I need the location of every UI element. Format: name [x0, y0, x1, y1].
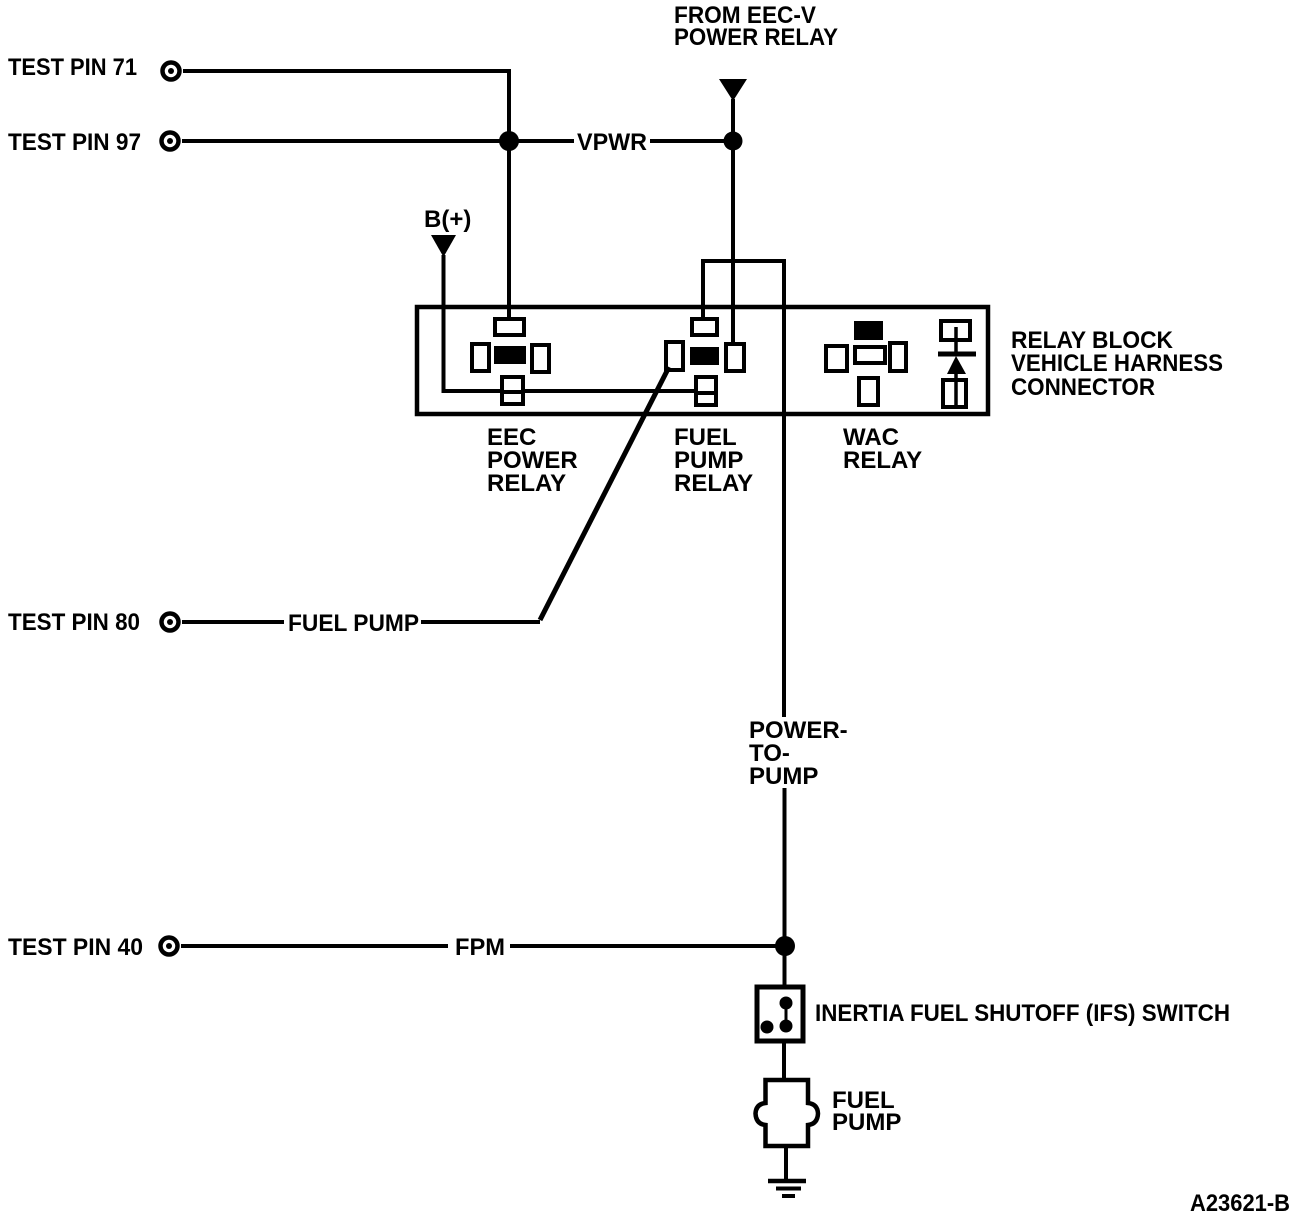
junction VPWR-EEC-V feed [724, 132, 743, 151]
fuel pump relay top pin [692, 319, 717, 335]
wire power-to-pump to FPM junction and IFS switch [785, 788, 786, 1004]
svg-text:FUEL PUMP: FUEL PUMP [288, 610, 419, 637]
wire IFS switch to fuel pump [782, 1041, 786, 1079]
svg-text:TEST PIN 80: TEST PIN 80 [8, 609, 140, 636]
WAC relay right contact [890, 343, 906, 371]
node FROM EEC-V POWER RELAY label [674, 2, 838, 51]
relay block vehicle harness connector outline [417, 307, 988, 414]
EEC power relay top pin [495, 319, 524, 335]
fuel pump motor M1 [756, 1080, 819, 1146]
fuel pump relay bottom pin upper [696, 377, 716, 393]
wire TP97 to VPWR node [182, 139, 733, 143]
fuel pump relay right contact [726, 344, 744, 371]
wire TP40 to FPM label [181, 944, 448, 948]
WAC relay coil [854, 321, 883, 340]
power feed arrow from EEC-V power relay [719, 79, 747, 101]
diode D1 [938, 354, 976, 374]
svg-text:INERTIA FUEL SHUTOFF (IFS) SWI: INERTIA FUEL SHUTOFF (IFS) SWITCH [815, 1000, 1230, 1027]
wire fuel pump relay output bridge to power-to-pump line [701, 259, 786, 717]
wire TP71 to VPWR junction [183, 71, 509, 141]
svg-text:VPWR: VPWR [577, 129, 647, 156]
svg-text:PUMP: PUMP [749, 763, 818, 790]
node TEST PIN 97 label [8, 129, 141, 156]
wire diode top stub [954, 327, 958, 354]
WAC RELAY label [843, 424, 922, 474]
svg-text:PUMP: PUMP [832, 1109, 901, 1136]
node POWER-TO-PUMP label [749, 717, 848, 790]
fuel pump relay left contact [666, 342, 683, 370]
FUEL PUMP component label [832, 1087, 901, 1136]
svg-text:B(+): B(+) [424, 206, 471, 233]
diode top pin [941, 321, 970, 340]
svg-text:A23621-B: A23621-B [1190, 1190, 1290, 1217]
EEC power relay left contact [472, 344, 489, 371]
wire B+ bus to relay bottom pins [442, 389, 707, 393]
svg-text:FPM: FPM [455, 934, 505, 961]
power feed arrow B(+) [431, 235, 456, 257]
node VPWR label [577, 129, 647, 156]
wire EEC-V feed down to fuel pump relay pin [731, 99, 735, 345]
node TEST PIN 80 label [8, 609, 140, 636]
wire diode bottom stub [954, 374, 958, 382]
junction FPM power-to-pump [775, 936, 795, 956]
wire VPWR down to EEC relay top pin [507, 141, 511, 321]
svg-text:TEST PIN 40: TEST PIN 40 [8, 934, 143, 961]
fuel pump relay bottom pin lower [696, 393, 716, 405]
diode bottom pin [943, 380, 966, 407]
svg-text:RELAY: RELAY [487, 470, 566, 497]
wire TP80 to FUEL PUMP label [182, 620, 284, 624]
svg-text:RELAY: RELAY [843, 447, 922, 474]
svg-text:POWER RELAY: POWER RELAY [674, 24, 838, 51]
test point terminal TP71 [163, 63, 180, 80]
node FPM label [455, 934, 505, 961]
svg-text:TEST PIN 71: TEST PIN 71 [8, 54, 137, 81]
EEC POWER RELAY label [487, 424, 578, 497]
wire FUEL PUMP to diagonal [421, 620, 540, 624]
EEC power relay bottom pin upper [502, 377, 523, 392]
wire diagonal to fuel pump relay contact [540, 367, 669, 620]
WAC relay middle contact [855, 347, 885, 363]
drawing number A23621-B [1190, 1190, 1290, 1217]
EEC power relay right contact [532, 345, 549, 372]
wire FPM to junction [510, 944, 784, 948]
node B(+) label [424, 206, 471, 233]
ground [768, 1181, 806, 1196]
svg-text:RELAY: RELAY [674, 470, 753, 497]
wire fuel pump to ground [784, 1148, 788, 1181]
fuel pump relay coil [690, 347, 719, 365]
svg-text:CONNECTOR: CONNECTOR [1011, 374, 1155, 401]
EEC power relay bottom pin lower [502, 392, 523, 404]
node FUEL PUMP label [288, 610, 419, 637]
WAC relay left contact [826, 346, 847, 371]
test point terminal TP97 [162, 133, 179, 150]
FUEL PUMP RELAY label [674, 424, 753, 497]
inertia fuel shutoff switch S1 [757, 987, 803, 1041]
test point terminal TP80 [162, 614, 179, 631]
node TEST PIN 71 label [8, 54, 137, 81]
EEC power relay coil [494, 346, 526, 364]
svg-text:TEST PIN 97: TEST PIN 97 [8, 129, 141, 156]
svg-text:VEHICLE HARNESS: VEHICLE HARNESS [1011, 350, 1223, 377]
wire B(+) down into relay block [442, 255, 446, 393]
WAC relay bottom pin [859, 378, 878, 405]
junction VPWR-TP71 [499, 131, 519, 151]
node TEST PIN 40 label [8, 934, 143, 961]
RELAY BLOCK VEHICLE HARNESS CONNECTOR label [1011, 327, 1223, 401]
INERTIA FUEL SHUTOFF (IFS) SWITCH label [815, 1000, 1230, 1027]
test point terminal TP40 [161, 938, 178, 955]
